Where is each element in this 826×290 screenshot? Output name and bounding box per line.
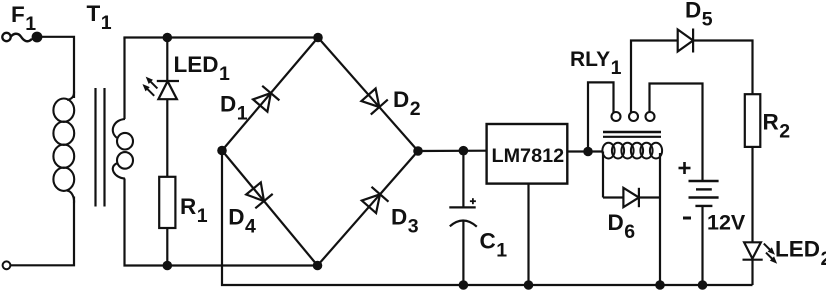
node: bridge left xyxy=(217,146,227,156)
node: output to relay coil and contact xyxy=(583,147,593,157)
wire: top rail to LED1 xyxy=(166,38,168,82)
node: R1 bottom junction xyxy=(163,261,173,271)
terminal: line input top xyxy=(2,33,10,41)
relay RLY1 core xyxy=(603,131,661,134)
relay RLY1 coil xyxy=(602,143,614,159)
battery BT1 plate short xyxy=(696,188,712,190)
wire: LED1 to R1 xyxy=(166,99,168,177)
node: fuse to primary xyxy=(32,32,43,43)
wire: D6 anode lead xyxy=(603,196,623,198)
diode D6 xyxy=(623,188,639,207)
wire: primary bottom to terminal xyxy=(11,197,75,266)
wire: D6 cathode to coil right post xyxy=(639,196,660,198)
resistor R2 xyxy=(745,94,761,147)
battery BT1 plate long xyxy=(689,196,719,198)
node: C1 ground xyxy=(459,280,469,290)
wire: battery minus to ground bus xyxy=(701,206,703,285)
terminal: line input bottom xyxy=(3,261,11,269)
diode D1 xyxy=(253,93,271,112)
transformer T1 secondary coil xyxy=(113,119,125,138)
LED LED1 xyxy=(157,80,179,82)
relay RLY1 contact circles xyxy=(612,112,621,121)
regulator U1 LM7812 box xyxy=(487,124,568,184)
wire: right contact to battery plus xyxy=(650,84,703,182)
wire: top rail xyxy=(123,36,318,38)
wire: secondary bottom to AC rail xyxy=(125,179,318,266)
resistor R1 xyxy=(159,177,175,228)
wire: relay coil left post xyxy=(602,152,604,198)
node: LM7812 ground xyxy=(524,280,534,290)
transformer T1 core xyxy=(94,88,96,207)
wire: R2 to LED2 xyxy=(751,147,753,242)
node: C1 branch xyxy=(459,146,469,156)
battery minus sign xyxy=(683,217,691,220)
battery plus sign xyxy=(679,167,691,170)
wire: LM7812 ground pin xyxy=(527,184,529,285)
wire: bridge arm left-top xyxy=(222,38,318,151)
battery BT1 plate short bottom xyxy=(695,205,712,207)
capacitor C1 positive plate xyxy=(449,206,475,208)
wire: C1 to ground bus xyxy=(462,220,464,285)
diode D2 xyxy=(361,89,379,108)
wire: relay coil right post to ground bus xyxy=(659,153,661,285)
fuse F1 xyxy=(11,34,32,42)
wire: fuse to transformer primary top xyxy=(37,37,74,98)
wire: C1 top lead xyxy=(462,151,464,208)
wire: bridge left to ground bus xyxy=(222,151,753,286)
wire: bridge arm left-bottom xyxy=(222,151,318,266)
capacitor C1 negative plate xyxy=(450,220,477,226)
wire: LED2 to ground bus xyxy=(751,260,753,285)
transformer T1 primary coil xyxy=(67,91,74,100)
wire: bridge arm bottom-right xyxy=(318,151,419,266)
wire: R1 to AC rail xyxy=(166,228,168,266)
wire: secondary top to top rail xyxy=(123,38,125,120)
node: bridge top xyxy=(313,33,323,43)
wire: bridge right to LM7812 input xyxy=(418,150,487,153)
battery BT1 plate long top xyxy=(689,180,719,182)
diode D4 xyxy=(246,182,264,201)
node: relay ground xyxy=(655,280,665,290)
svg-text:12V: 12V xyxy=(707,210,746,234)
svg-text:LM7812: LM7812 xyxy=(492,145,565,167)
node: LED1 branch on top rail xyxy=(163,33,173,43)
wire: bridge arm top-right xyxy=(318,38,418,152)
diode D5 xyxy=(678,30,693,52)
node: battery ground xyxy=(698,280,708,290)
node: bridge bottom xyxy=(313,261,323,271)
wire: middle contact up to D5 xyxy=(631,41,678,114)
wire: D5 to R2 xyxy=(693,41,752,95)
LED LED2 xyxy=(744,242,761,258)
node: bridge right xyxy=(413,146,423,156)
wire: left contact to regulator output xyxy=(588,82,614,151)
diode D3 xyxy=(362,194,380,213)
capacitor C1 plus sign xyxy=(470,200,476,202)
wire: LM7812 output xyxy=(567,150,603,152)
